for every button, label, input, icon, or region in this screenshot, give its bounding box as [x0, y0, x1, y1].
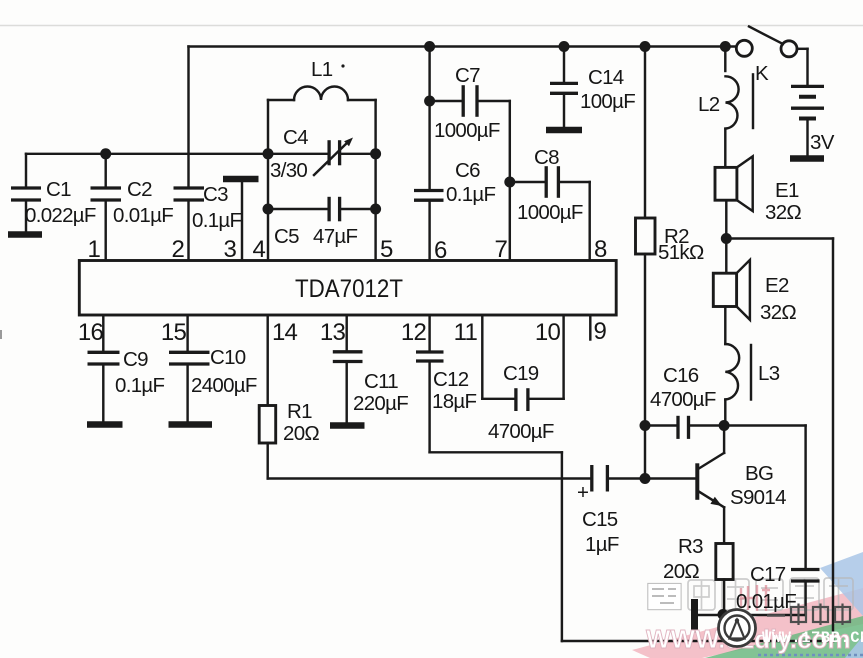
watermark under-layer: colour bands, outlined glyphs and seal [632, 588, 863, 658]
svg-text:4: 4 [252, 236, 265, 263]
svg-text:C7: C7 [455, 64, 480, 87]
svg-text:47µF: 47µF [313, 225, 358, 248]
svg-text:3/30: 3/30 [270, 159, 307, 182]
svg-text:R1: R1 [287, 400, 312, 423]
svg-text:6: 6 [434, 237, 447, 264]
capacitor C3 [174, 183, 242, 232]
wire pin6 vertical [424, 41, 435, 261]
ground C10 [169, 421, 213, 428]
capacitor C16 [640, 364, 730, 439]
svg-text:14: 14 [272, 319, 298, 346]
svg-text:C1: C1 [46, 178, 71, 201]
svg-text:L2: L2 [698, 93, 720, 116]
wire pin7 vertical [509, 101, 511, 261]
svg-text:32Ω: 32Ω [765, 201, 801, 224]
resistor R3 [663, 535, 733, 620]
svg-text:E1: E1 [775, 179, 799, 202]
capacitor C17 [736, 563, 820, 615]
capacitor C15 [577, 465, 619, 556]
svg-text:32Ω: 32Ω [760, 301, 796, 324]
resistor R2 [636, 41, 704, 479]
svg-text:TDA7012T: TDA7012T [295, 275, 403, 303]
capacitor C11 [333, 315, 408, 424]
capacitor C6 [414, 159, 496, 206]
svg-text:C14: C14 [588, 66, 624, 89]
svg-text:L1: L1 [311, 58, 333, 81]
svg-text:C2: C2 [127, 178, 152, 201]
svg-text:C8: C8 [534, 146, 559, 169]
svg-text:4700µF: 4700µF [488, 420, 554, 443]
svg-text:15: 15 [161, 319, 187, 346]
svg-text:8: 8 [594, 236, 607, 263]
transistor BG S9014 [697, 426, 786, 544]
tank circuit box verticals (pin4 / pin5) [268, 100, 376, 261]
capacitor C5 [263, 197, 382, 248]
faint horizontal rule [0, 25, 863, 27]
svg-text:E2: E2 [765, 274, 789, 297]
capacitor C19 [482, 315, 563, 443]
svg-text:0.1µF: 0.1µF [192, 209, 242, 232]
svg-text:C4: C4 [283, 126, 308, 149]
svg-text:BG: BG [745, 462, 773, 485]
svg-text:C19: C19 [503, 362, 539, 385]
wire bottom emitter return [695, 614, 806, 616]
ground C11 [330, 422, 365, 429]
resistor R1 [259, 315, 319, 479]
ground C1 [8, 231, 42, 238]
svg-text:0.01µF: 0.01µF [736, 590, 796, 613]
wire collector node to C17 branch [724, 426, 806, 570]
svg-text:13: 13 [320, 319, 346, 346]
svg-text:0.01µF: 0.01µF [113, 204, 173, 227]
capacitor C2 [91, 148, 174, 260]
svg-text:C15: C15 [582, 508, 618, 531]
svg-text:9: 9 [594, 318, 607, 345]
svg-text:3V: 3V [810, 131, 835, 154]
svg-text:220µF: 220µF [353, 392, 408, 415]
svg-text:C12: C12 [433, 368, 469, 391]
inductor L2 [698, 47, 753, 129]
pin numbers bottom [78, 319, 561, 346]
switch K [720, 27, 808, 86]
svg-text:1µF: 1µF [585, 533, 619, 556]
svg-text:1000µF: 1000µF [434, 119, 500, 142]
svg-text:20Ω: 20Ω [283, 422, 319, 445]
svg-text:0.022µF: 0.022µF [25, 204, 96, 227]
wire base row [607, 473, 697, 484]
svg-text:1000µF: 1000µF [517, 201, 583, 224]
svg-text:C11: C11 [364, 370, 398, 393]
variable capacitor C4 [263, 126, 382, 182]
svg-text:10: 10 [535, 319, 561, 346]
battery 3V [791, 49, 835, 156]
ground battery [790, 155, 824, 162]
svg-text:3: 3 [223, 236, 236, 263]
capacitor C8 branch [504, 146, 589, 224]
speaker E1 [715, 129, 801, 274]
svg-text:100µF: 100µF [580, 90, 635, 113]
wire C12 return path [430, 452, 833, 641]
wire pin8 vertical [588, 182, 590, 261]
watermark [646, 604, 863, 656]
svg-text:18µF: 18µF [432, 390, 477, 413]
wire pin2 vertical from rail [187, 47, 189, 261]
svg-text:2400µF: 2400µF [191, 374, 257, 397]
svg-text:C10: C10 [210, 346, 246, 369]
svg-text:+: + [577, 481, 588, 504]
svg-text:S9014: S9014 [730, 486, 786, 509]
svg-text:WWW.17BB.CN: WWW.17BB.CN [762, 629, 863, 647]
ground C14 [546, 127, 582, 134]
inductor L1 [294, 58, 348, 100]
svg-text:12: 12 [401, 319, 427, 346]
svg-text:51kΩ: 51kΩ [658, 241, 704, 264]
svg-text:0.1µF: 0.1µF [115, 374, 165, 397]
svg-text:C16: C16 [663, 364, 699, 387]
svg-text:4700µF: 4700µF [650, 388, 716, 411]
svg-text:7: 7 [494, 236, 507, 263]
svg-text:11: 11 [454, 319, 478, 346]
speaker E2 [713, 260, 796, 344]
ground C9 [87, 421, 123, 428]
svg-text:C6: C6 [455, 159, 480, 182]
IC U1 TDA7012T [79, 261, 616, 316]
wire left rail to tank [26, 153, 329, 155]
capacitor C10 [169, 315, 257, 423]
svg-text:R3: R3 [678, 535, 703, 558]
scan speck left edge [0, 330, 2, 339]
antenna on pin 3 [223, 179, 259, 261]
svg-text:C9: C9 [123, 348, 148, 371]
svg-text:C3: C3 [203, 183, 228, 206]
svg-text:K: K [755, 62, 769, 85]
node E1/E2 junction to right rail [721, 233, 833, 641]
svg-text:C5: C5 [274, 225, 299, 248]
capacitor C12 [416, 315, 477, 452]
wire top supply rail [189, 45, 737, 47]
svg-text:0.1µF: 0.1µF [446, 183, 496, 206]
capacitor C14 [550, 41, 635, 127]
capacitor C9 [88, 315, 165, 423]
pin numbers top [87, 236, 507, 263]
svg-text:16: 16 [78, 319, 104, 346]
capacitor C7 branch [424, 64, 510, 142]
svg-text:5: 5 [380, 236, 393, 263]
capacitor C1 [11, 154, 96, 231]
wire R1 to C15 [268, 477, 592, 479]
svg-text:2: 2 [171, 236, 184, 263]
svg-text:C17: C17 [750, 563, 786, 586]
svg-text:20Ω: 20Ω [663, 560, 699, 583]
ground bottom bar [691, 599, 698, 633]
svg-text:L3: L3 [758, 362, 780, 385]
inductor L3 [725, 344, 779, 426]
svg-text:1: 1 [87, 236, 100, 263]
pin 9 stub [589, 315, 591, 340]
